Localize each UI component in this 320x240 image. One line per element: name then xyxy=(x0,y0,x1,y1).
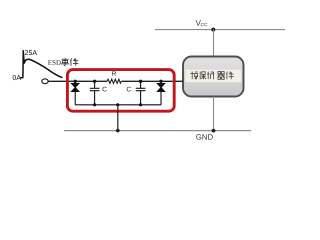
label C (left capacitor) xyxy=(103,87,107,92)
capacitor C1 xyxy=(90,81,100,105)
GND rail wire xyxy=(64,130,251,132)
label 器 xyxy=(217,72,224,80)
ESD waveform curve xyxy=(21,51,62,78)
node dot bottom rail center xyxy=(116,103,119,106)
protection network red box xyxy=(67,70,174,112)
label 件 xyxy=(226,72,233,80)
wire Vcc to protected device xyxy=(213,30,215,57)
label ESD xyxy=(48,60,61,65)
label 保 xyxy=(200,72,206,80)
label 护 xyxy=(207,72,214,80)
label 事 (ESD event text) xyxy=(61,58,69,65)
node GND junction dot xyxy=(212,129,216,133)
input terminal circle xyxy=(42,79,48,84)
wire input to resistor xyxy=(48,80,107,82)
capacitor C2 xyxy=(136,81,146,105)
label R xyxy=(112,71,116,75)
wire bottom rail to GND xyxy=(117,105,119,131)
Vcc rail wire xyxy=(155,29,285,31)
TVS diode D1 (bidirectional) xyxy=(72,81,79,105)
node dot capacitor C1 top xyxy=(93,80,96,83)
wire protected device to GND xyxy=(213,97,215,131)
node dot TVS D2 top xyxy=(159,80,162,83)
resistor R1 zigzag xyxy=(107,79,121,83)
label 25A xyxy=(25,50,37,55)
node dot TVS D1 top xyxy=(74,80,77,83)
node dot bottom rail C1 xyxy=(93,103,96,106)
label 0A xyxy=(13,75,21,80)
label 件 (ESD event text) xyxy=(70,58,78,65)
label C (right capacitor) xyxy=(127,87,131,92)
label 被 (protected device text) xyxy=(190,72,197,80)
bottom rail wire xyxy=(75,104,161,106)
node Vcc junction dot xyxy=(211,28,215,32)
Vcc label xyxy=(196,20,208,26)
node dot bottom rail C2 xyxy=(139,103,142,106)
node dot GND junction left xyxy=(116,129,120,133)
wire resistor to protected device xyxy=(121,80,183,82)
protected device box U1 (被保护器件) xyxy=(183,57,244,97)
node dot capacitor C2 top xyxy=(139,80,142,83)
TVS diode D2 (bidirectional) xyxy=(157,81,164,105)
label GND xyxy=(196,134,213,140)
